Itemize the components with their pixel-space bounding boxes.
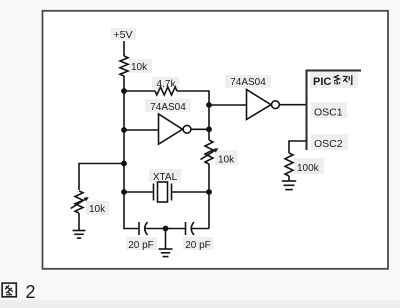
svg-text:+5V: +5V	[114, 29, 133, 41]
node F junction dot (crystal right)	[206, 189, 212, 195]
+5V power supply label	[114, 29, 133, 41]
wire node A to 4.7k resistor	[124, 90, 155, 92]
node D junction dot (U1 output)	[206, 126, 212, 132]
wire node G down to bottom rail	[124, 192, 139, 229]
wire 10k resistor to node A	[123, 76, 125, 91]
node H junction dot (bottom center)	[163, 226, 169, 232]
wire node G to crystal	[124, 191, 154, 193]
variable resistor 10k (left, trimmer)	[71, 191, 106, 215]
wire 20pF (right) to right rail	[191, 228, 209, 230]
node G junction dot (crystal left)	[121, 189, 127, 195]
wire node A to node C (left rail)	[123, 91, 125, 130]
pin OSC1 label	[314, 107, 343, 119]
node C junction dot (inverter U1 input)	[121, 127, 127, 133]
resistor 4.7k feedback	[155, 79, 177, 95]
PIC microcontroller block outline	[307, 71, 362, 151]
schematic border frame	[43, 11, 389, 269]
wire node E to node G (left rail)	[123, 164, 125, 193]
wire node F down to bottom rail	[208, 192, 210, 229]
wire 4.7k to node B (corner)	[177, 91, 209, 105]
capacitor 20 pF (right)	[185, 222, 211, 251]
pin OSC2 label	[314, 138, 343, 150]
wire crystal to node F	[172, 191, 210, 193]
wire 100k to ground	[288, 176, 290, 181]
wire node B to node D (right rail)	[208, 105, 210, 129]
label background halos	[86, 28, 358, 250]
wire left trimmer to ground	[78, 213, 80, 231]
variable resistor 10k (right, trimmer)	[201, 140, 236, 166]
wire 20pF (left) to node H	[145, 228, 166, 230]
svg-text:10k: 10k	[89, 204, 106, 215]
wire +5V to 10k pull-up resistor	[123, 41, 125, 56]
inverter U1 74AS04	[150, 102, 191, 144]
svg-text:PIC: PIC	[313, 76, 331, 88]
svg-text:74AS04: 74AS04	[150, 102, 186, 113]
svg-text:2: 2	[26, 282, 36, 302]
wire node C to node E (left rail)	[123, 130, 125, 164]
wire node E to left variable resistor	[79, 164, 124, 191]
svg-text:10k: 10k	[218, 155, 235, 166]
svg-text:10k: 10k	[131, 62, 148, 73]
node B junction dot (inverter U2 input tap)	[206, 102, 212, 108]
wire U2 output to OSC1 pin	[279, 104, 306, 106]
ground (left trimmer)	[73, 231, 86, 239]
wire OSC2 pin to 100k resistor	[289, 141, 307, 153]
caption figure 2	[1, 281, 65, 305]
wire variable resistor to node F	[208, 164, 210, 192]
wire node B to U2 input	[209, 104, 247, 106]
svg-text:20 pF: 20 pF	[128, 240, 154, 251]
wire U1 output to node D	[191, 128, 209, 130]
PIC series label	[313, 75, 352, 88]
node E junction dot (branch to left trimmer)	[121, 161, 127, 167]
node A junction dot (top left)	[121, 88, 127, 94]
svg-text:4.7k: 4.7k	[157, 79, 177, 90]
wire node D to variable resistor 10k	[208, 129, 210, 140]
crystal XTAL	[153, 172, 178, 202]
resistor 10k pull-up	[120, 56, 148, 76]
capacitor 20 pF (left)	[128, 222, 154, 251]
ground (bottom center)	[159, 229, 173, 257]
wire node H to 20pF (right)	[166, 228, 186, 230]
ground (under 100k)	[282, 181, 296, 190]
svg-text:OSC1: OSC1	[314, 107, 343, 119]
resistor 100k	[285, 153, 320, 176]
svg-text:OSC2: OSC2	[314, 138, 343, 150]
svg-text:20 pF: 20 pF	[185, 240, 211, 251]
svg-text:74AS04: 74AS04	[230, 77, 266, 88]
inverter U2 74AS04	[230, 77, 279, 120]
svg-text:100k: 100k	[297, 163, 320, 174]
wire node C to U1 input	[124, 129, 159, 131]
